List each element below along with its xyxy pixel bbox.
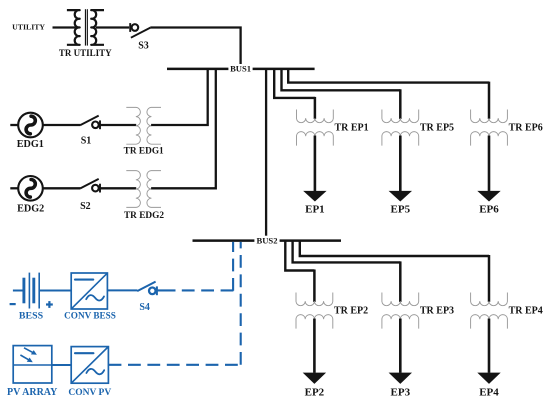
transformer TR EDG2 secondary winding bbox=[147, 171, 161, 208]
svg-text:TR EP5: TR EP5 bbox=[420, 123, 454, 134]
wire TR EDG1 to BUS1 bbox=[151, 69, 208, 125]
svg-text:TR EP3: TR EP3 bbox=[420, 306, 454, 317]
svg-text:TR EDG1: TR EDG1 bbox=[124, 147, 164, 157]
transformer TR UTILITY core bbox=[84, 9, 86, 45]
converter CONV PV box bbox=[71, 347, 108, 384]
svg-text:TR EP6: TR EP6 bbox=[509, 123, 543, 134]
bus BUS1 label bbox=[228, 64, 252, 73]
svg-text:S4: S4 bbox=[139, 302, 150, 313]
bus BUS2 bbox=[193, 239, 342, 242]
wire feed into TR EP4 bbox=[488, 255, 491, 302]
svg-text:EP4: EP4 bbox=[479, 387, 499, 399]
switch S1 bbox=[80, 116, 98, 126]
generator EDG2 bbox=[18, 176, 43, 201]
generator EDG1 bbox=[18, 113, 43, 138]
svg-text:EP3: EP3 bbox=[391, 387, 411, 399]
wire EP3 feeder bbox=[399, 319, 402, 373]
svg-text:TR EP2: TR EP2 bbox=[334, 306, 368, 317]
transformer TR UTILITY secondary winding bbox=[91, 10, 104, 45]
converter CONV PV diagonal bbox=[72, 347, 108, 383]
wire EP5 feeder bbox=[399, 136, 402, 192]
svg-text:PV ARRAY: PV ARRAY bbox=[7, 387, 58, 398]
wire TR UTILITY to S3 bbox=[96, 26, 129, 28]
battery BESS plus sign bbox=[46, 303, 53, 305]
converter CONV BESS diagonal bbox=[72, 273, 107, 308]
load arrow EP2 bbox=[303, 373, 326, 384]
wire S2 to TR EDG2 bbox=[100, 187, 136, 189]
wire feed into TR EP6 bbox=[488, 82, 491, 119]
wire EP6 feeder bbox=[488, 136, 491, 192]
load arrow EP6 bbox=[477, 191, 500, 202]
transformer TR EP1 secondary winding bbox=[297, 132, 334, 146]
svg-text:CONV BESS: CONV BESS bbox=[64, 310, 116, 320]
svg-text:EP1: EP1 bbox=[305, 203, 325, 215]
wire S4 solid stub bbox=[157, 289, 176, 291]
wire CONV PV to BUS2 dashed bbox=[109, 364, 242, 366]
svg-text:EP5: EP5 bbox=[391, 203, 411, 215]
switch S3 bbox=[129, 23, 131, 32]
svg-text:TR EDG2: TR EDG2 bbox=[124, 211, 164, 221]
svg-text:S3: S3 bbox=[138, 41, 149, 52]
wire S1 to TR EDG1 bbox=[100, 124, 136, 126]
converter CONV BESS ac wave bbox=[86, 295, 104, 300]
svg-text:EDG1: EDG1 bbox=[17, 139, 44, 150]
wire EP4 feeder bbox=[488, 319, 491, 373]
svg-text:BUS1: BUS1 bbox=[230, 64, 251, 74]
switch S4 bbox=[137, 282, 155, 292]
wire CONV BESS to S4 bbox=[107, 289, 137, 291]
wire BUS2 to TR EP2 bbox=[285, 241, 314, 271]
battery BESS plates bbox=[22, 278, 25, 304]
generator EDG2 stub wire bbox=[10, 187, 18, 189]
pv array panel divider bbox=[13, 364, 52, 366]
load arrow EP1 bbox=[303, 191, 326, 202]
transformer TR EP4 primary winding bbox=[471, 293, 508, 306]
wire BUS1 to TR EP6 bbox=[288, 69, 489, 83]
wire S4 to BUS2 dashed bbox=[182, 289, 234, 291]
wire S3 to BUS1 bbox=[150, 28, 240, 69]
battery BESS negative lead wire bbox=[13, 290, 23, 292]
transformer TR EP1 primary winding bbox=[297, 110, 334, 123]
converter CONV PV ac wave bbox=[86, 369, 104, 374]
load arrow EP5 bbox=[389, 191, 412, 202]
bus BUS2 label bbox=[254, 236, 279, 245]
wire UTILITY to TR UTILITY bbox=[53, 26, 76, 28]
pv array PV ARRAY box bbox=[13, 346, 52, 383]
converter CONV BESS box bbox=[71, 273, 107, 309]
svg-text:TR EP4: TR EP4 bbox=[509, 306, 543, 317]
transformer TR EP3 secondary winding bbox=[382, 315, 419, 329]
pv array sun arrow 2 bbox=[20, 355, 30, 361]
generator EDG1 stub wire bbox=[10, 124, 18, 126]
wire PV ARRAY to CONV PV bbox=[52, 364, 71, 366]
transformer TR EDG2 primary winding bbox=[126, 171, 140, 208]
transformer TR EDG1 secondary winding bbox=[147, 107, 161, 144]
transformer TR EP5 secondary winding bbox=[382, 132, 419, 146]
svg-text:TR EP1: TR EP1 bbox=[335, 123, 369, 134]
transformer TR EP6 secondary winding bbox=[471, 132, 508, 146]
svg-text:S1: S1 bbox=[81, 136, 92, 147]
load arrow EP3 bbox=[389, 373, 412, 384]
wire EDG2 to S2 bbox=[43, 187, 81, 189]
wire feed into TR EP2 bbox=[313, 270, 316, 302]
wire BUS2 to TR EP4 bbox=[300, 241, 489, 256]
svg-text:TR UTILITY: TR UTILITY bbox=[59, 48, 112, 58]
transformer TR EP2 primary winding bbox=[296, 293, 333, 306]
battery BESS minus sign bbox=[10, 303, 16, 305]
transformer TR EDG1 primary winding bbox=[126, 107, 140, 144]
bus BUS1 bbox=[167, 68, 315, 71]
svg-text:EDG2: EDG2 bbox=[17, 203, 44, 214]
wire BUS1 to BUS2 tie bbox=[265, 69, 267, 241]
wire EP1 feeder bbox=[314, 136, 317, 192]
svg-text:CONV PV: CONV PV bbox=[68, 388, 111, 398]
wire feed into TR EP3 bbox=[399, 261, 402, 302]
transformer TR EP6 primary winding bbox=[471, 110, 508, 123]
transformer TR EP2 secondary winding bbox=[296, 315, 333, 329]
load arrow EP4 bbox=[477, 373, 500, 384]
svg-text:EP6: EP6 bbox=[479, 203, 499, 215]
battery BESS positive lead wire bbox=[40, 290, 71, 292]
wire BUS1 to TR EP1 bbox=[274, 69, 315, 98]
transformer TR UTILITY primary winding bbox=[67, 10, 80, 45]
transformer TR EP5 primary winding bbox=[382, 110, 419, 123]
converter CONV PV dc line bbox=[75, 352, 93, 354]
svg-text:S2: S2 bbox=[80, 201, 91, 212]
wire BUS1 to TR EP5 bbox=[282, 69, 401, 90]
transformer TR EP3 primary winding bbox=[382, 293, 419, 306]
wire feed into TR EP1 bbox=[314, 97, 317, 119]
svg-text:BUS2: BUS2 bbox=[256, 235, 277, 245]
switch S2 bbox=[80, 179, 98, 189]
wire TR EDG2 to BUS1 bbox=[151, 69, 216, 188]
wire BUS2 to TR EP3 bbox=[293, 241, 401, 263]
wire feed into TR EP5 bbox=[399, 89, 402, 119]
svg-text:EP2: EP2 bbox=[305, 387, 325, 399]
svg-text:BESS: BESS bbox=[19, 310, 44, 321]
svg-text:UTILITY: UTILITY bbox=[12, 23, 45, 32]
wire EP2 feeder bbox=[313, 319, 316, 373]
transformer TR EP4 secondary winding bbox=[471, 315, 508, 329]
wire EDG1 to S1 bbox=[43, 124, 81, 126]
converter CONV BESS dc line bbox=[75, 279, 93, 281]
pv array sun arrow 1 bbox=[24, 348, 35, 354]
